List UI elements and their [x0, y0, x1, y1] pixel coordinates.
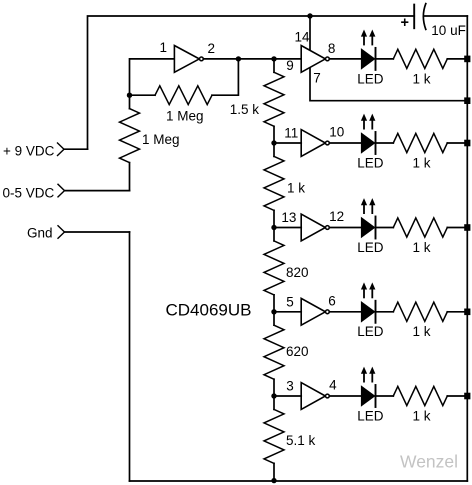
node rail junction (467.3,311.8): [464, 309, 470, 316]
resistor ladder 5.1 k: [264, 396, 316, 481]
svg-text:LED: LED: [357, 324, 384, 339]
resistor ladder 820: [264, 228, 309, 312]
svg-text:820: 820: [286, 265, 309, 280]
svg-text:13: 13: [281, 210, 296, 225]
svg-text:+: +: [401, 15, 409, 31]
resistor 1 k row 3: [393, 218, 447, 255]
op-amp U1 inverter row 4: [301, 298, 329, 325]
resistor ladder 620: [264, 312, 309, 396]
svg-text:14: 14: [295, 30, 311, 45]
op-amp U1A inverter pins 1-2: [174, 46, 203, 73]
node junction (310,16.0): [307, 13, 312, 18]
node junction (274,227.5): [271, 225, 276, 230]
node junction (274,58.9): [271, 56, 276, 61]
resistor ladder 1 k: [264, 143, 305, 228]
svg-text:LED: LED: [357, 408, 384, 423]
node rail junction (467.3,100.7): [464, 97, 470, 104]
terminal 0-5 VDC: [3, 184, 130, 200]
node junction (274,311.8): [271, 309, 276, 314]
wire pin 14 from top rail / pin 7 to ground rail: [310, 16, 467, 101]
svg-text:1 Meg: 1 Meg: [166, 109, 204, 124]
svg-text:10 uF: 10 uF: [431, 23, 466, 38]
wire resistor to right rail row 5: [447, 395, 467, 397]
wire LED to resistor 1 k row 5: [376, 395, 394, 397]
wire resistor to right rail row 4: [447, 311, 467, 313]
svg-text:620: 620: [286, 344, 309, 359]
svg-text:9: 9: [286, 58, 294, 73]
svg-text:1 k: 1 k: [287, 181, 305, 196]
terminal Gnd: [27, 225, 130, 240]
svg-text:12: 12: [329, 209, 344, 224]
node junction (274,480.6): [271, 478, 276, 483]
LED D4: [357, 282, 384, 339]
wire capacitor to top-right corner: [425, 15, 468, 17]
wire LED to resistor 1 k row 2: [376, 142, 394, 144]
wire inverter row 5 output to LED: [329, 395, 361, 397]
wire +9V riser and top rail: [88, 16, 415, 149]
svg-text:6: 6: [328, 293, 336, 308]
node rail junction (467.3,396.0): [464, 393, 470, 400]
LED D2: [357, 114, 384, 171]
wire inverter row 3 output to LED: [329, 227, 361, 229]
op-amp U1 inverter row 3: [301, 214, 329, 241]
svg-text:1 k: 1 k: [413, 71, 431, 86]
node junction (238.4,58.9): [236, 56, 241, 61]
op-amp U1 inverter row 2: [301, 130, 329, 157]
svg-text:CD4069UB: CD4069UB: [166, 301, 252, 320]
resistor ladder 1.5 k: [230, 59, 284, 143]
svg-text:LED: LED: [357, 240, 384, 255]
resistor R1 1 Meg vertical leads: [129, 95, 131, 190]
wire pin2 output to ladder and pin 9: [203, 58, 301, 60]
wire resistor to right rail row 2: [447, 142, 467, 144]
wire inverter row 1 output to LED: [329, 58, 361, 60]
resistor 1 k row 5: [393, 386, 447, 423]
svg-text:0-5 VDC: 0-5 VDC: [3, 185, 55, 200]
resistor R2 1 Meg feedback body: [155, 86, 212, 105]
LED D3: [357, 198, 384, 255]
svg-text:10: 10: [329, 125, 344, 140]
wire LED to resistor 1 k row 1: [376, 58, 394, 60]
op-amp U1 inverter row 5: [301, 383, 329, 410]
resistor R1 1 Meg vertical body: [120, 109, 140, 163]
wire ladder to inverter row 4 input: [274, 311, 301, 313]
resistor 1 k row 4: [393, 302, 447, 339]
node rail junction (467.3,58.9): [464, 56, 470, 63]
wire pin1 input: [130, 59, 175, 95]
svg-text:1 Meg: 1 Meg: [142, 132, 180, 147]
capacitor C1 10 uF plate left: [413, 5, 415, 29]
node rail junction (467.3,143.0): [464, 140, 470, 147]
terminal + 9 VDC: [3, 143, 88, 158]
wire LED to resistor 1 k row 3: [376, 227, 394, 229]
svg-text:1 k: 1 k: [413, 240, 431, 255]
svg-text:5.1 k: 5.1 k: [286, 433, 316, 448]
svg-text:11: 11: [284, 126, 298, 141]
wire resistor to right rail row 1: [447, 58, 467, 60]
svg-text:7: 7: [313, 71, 321, 86]
wire ladder to inverter row 3 input: [274, 227, 301, 229]
LED D1: [357, 30, 384, 87]
svg-text:8: 8: [328, 41, 336, 56]
wire resistor to right rail row 3: [447, 227, 467, 229]
wire left ground drop from Gnd: [129, 232, 131, 481]
node junction (129.5,95.2): [127, 93, 132, 98]
node junction (274,143.0): [271, 140, 276, 145]
resistor 1 k row 1: [393, 49, 447, 86]
wire inverter row 4 output to LED: [329, 311, 361, 313]
wire bottom ground rail: [130, 480, 468, 482]
wire LED to resistor 1 k row 4: [376, 311, 394, 313]
svg-text:1 k: 1 k: [413, 408, 431, 423]
svg-text:1: 1: [160, 40, 168, 55]
svg-text:1.5 k: 1.5 k: [230, 102, 260, 117]
wire ladder to inverter row 5 input: [274, 395, 301, 397]
svg-text:+ 9 VDC: + 9 VDC: [3, 143, 55, 158]
svg-text:LED: LED: [357, 71, 384, 86]
svg-text:3: 3: [286, 379, 294, 394]
resistor 1 k row 2: [393, 133, 447, 170]
svg-text:5: 5: [286, 294, 294, 309]
svg-text:2: 2: [208, 41, 216, 56]
resistor R2 1 Meg feedback leads: [130, 59, 239, 95]
svg-text:1 k: 1 k: [413, 324, 431, 339]
capacitor C1 curved plate: [423, 4, 425, 30]
wire right ground rail: [466, 16, 468, 481]
svg-text:Wenzel: Wenzel: [400, 452, 458, 472]
svg-text:4: 4: [329, 378, 337, 393]
svg-text:1 k: 1 k: [413, 155, 431, 170]
LED D5: [357, 367, 384, 424]
wire inverter row 2 output to LED: [329, 142, 361, 144]
svg-text:LED: LED: [357, 155, 384, 170]
node junction (274,396.0): [271, 393, 276, 398]
wire ladder to inverter row 2 input: [274, 142, 301, 144]
node rail junction (467.3,227.5): [464, 224, 470, 231]
op-amp U1 inverter row 1: [301, 46, 329, 73]
svg-text:Gnd: Gnd: [27, 225, 53, 240]
